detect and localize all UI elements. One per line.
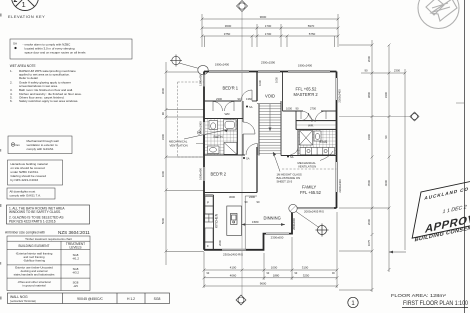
svg-text:2300: 2300 [394,69,401,73]
wall ens bottom / family top [281,155,337,157]
svg-text:VENTILATION: VENTILATION [298,165,316,169]
svg-text:2700: 2700 [310,106,316,110]
wall bed2 bottom [204,192,257,194]
svg-text:ENS: ENS [320,140,328,144]
leader to corner tag [179,63,199,69]
svg-text:Safety restriction apply to we: Safety restriction apply to wet area win… [19,99,78,103]
svg-text:1000x1000: 1000x1000 [199,121,203,135]
svg-text:BED'R 2: BED'R 2 [211,172,227,177]
window: bed1 top 1900x2400 [209,70,249,72]
note box: fan ventilation [8,136,72,154]
dashed void-over line [282,168,337,170]
wall bed1 bottom [204,100,241,102]
bath tiles hatch [205,119,237,155]
svg-text:2400: 2400 [249,195,255,199]
svg-text:5970: 5970 [308,24,315,28]
wall nog strip [8,293,170,304]
right arrow line [389,251,406,253]
svg-text:4060: 4060 [230,273,237,277]
svg-text:2000x600: 2000x600 [292,218,296,230]
svg-text:2300: 2300 [216,97,222,101]
window: dining step slider [266,233,289,235]
svg-text:H 1.2: H 1.2 [127,297,135,301]
grid bubble bottom (diamond) [236,295,246,305]
window: right wall master [336,78,338,100]
window: family bottom slider [296,207,334,209]
grid line horizontal C [339,116,411,118]
door arcs: master wr bifold [301,113,316,121]
svg-text:2300x600: 2300x600 [271,235,284,239]
svg-text:90: 90 [384,135,388,139]
svg-text:1030: 1030 [275,77,279,83]
svg-text:WR.: WR. [225,112,231,116]
svg-text:KITCHEN: KITCHEN [215,213,219,228]
exterior walls [204,72,337,250]
window: right wall family [336,162,338,192]
svg-text:1075: 1075 [367,239,371,246]
corner window tag [198,65,208,74]
wall ens left [297,130,299,156]
wall bed1/void [256,72,258,102]
svg-text:WR.: WR. [308,123,314,127]
window: master top 1900x2400 [288,70,330,72]
svg-text:FIRST FLOOR PLAN 1:100: FIRST FLOOR PLAN 1:100 [403,300,468,307]
svg-text:comply with G/AS1 7.A.: comply with G/AS1 7.A. [10,194,42,198]
scan specks left edge [0,14,2,300]
grid bubble A left [170,55,182,67]
fan symbol bath [197,131,200,134]
wall void/master [282,72,284,112]
svg-text:in ground material: in ground material [22,284,45,288]
wall wr strip bottom [204,118,243,120]
svg-text:2.: 2. [10,81,13,85]
drawing number bubble [348,297,358,307]
elevation key symbol [12,0,39,11]
svg-text:2000: 2000 [367,218,371,225]
svg-text:90: 90 [245,200,248,204]
ens tiles hatch [299,130,337,155]
svg-text:5750: 5750 [309,32,316,36]
window: left wall bath [203,122,205,135]
svg-text:WALL NOG: WALL NOG [10,295,28,299]
door arcs: bed1 wardrobe bifold [213,102,234,112]
note box: smoke alarm SA [10,39,132,59]
wall kitchen strip [213,195,215,250]
svg-text:1880: 1880 [273,273,280,277]
svg-text:NZS 3604:2011: NZS 3604:2011 [58,230,90,235]
svg-text:FFL +65.52: FFL +65.52 [300,190,322,195]
leader to target symbol [296,212,319,228]
svg-text:stairs,handrails and balustrad: stairs,handrails and balustrades [14,273,55,277]
svg-text:2000: 2000 [367,55,371,62]
svg-text:WET AREA NOTE: WET AREA NOTE [10,64,36,68]
svg-text:DINNING: DINNING [264,216,281,221]
door arc: bed1 door [241,90,252,101]
kitchen island [227,206,242,235]
svg-text:-Subfloor framing: -Subfloor framing [23,259,46,263]
svg-text:-H3.2: -H3.2 [72,271,79,275]
svg-text:1300x400: 1300x400 [199,74,203,86]
svg-text:SG8: SG8 [154,297,161,301]
door arcs: master double door [301,111,326,122]
left dimension line [165,62,205,265]
svg-text:FFL +65.52: FFL +65.52 [296,87,318,92]
svg-text:1900x2400: 1900x2400 [298,64,313,68]
svg-text:VENTILATION: VENTILATION [170,143,188,147]
north symbol [418,0,459,29]
bottom dimension total 9600 [203,285,339,288]
wall master wr top [296,120,337,122]
smoke alarm symbols [243,105,294,161]
kitchen dining divider line [244,196,246,250]
right dimension lines [339,40,407,292]
svg-text:90: 90 [296,106,299,110]
svg-text:3800: 3800 [367,91,371,98]
sheet right border [464,0,466,313]
window: left wall bed2 [203,167,205,181]
top dimension line 2 [201,24,340,47]
svg-text:2300x2400: 2300x2400 [338,179,342,193]
svg-text:1000: 1000 [271,266,278,270]
svg-text:space door and on escape route: space door and on escape routes on all l… [25,51,87,55]
bottom dimension line 2 [203,276,339,279]
svg-text:1030: 1030 [258,80,262,86]
svg-text:1000x400: 1000x400 [199,168,203,180]
svg-text:90X45 @450C/C: 90X45 @450C/C [77,297,103,301]
svg-text:1: 1 [22,0,26,9]
grid line vertical B [241,12,243,298]
grid bubble right (diamond) [410,112,419,121]
svg-text:3250: 3250 [303,273,310,277]
wall hall/bath [236,119,238,156]
wall hall vertical [242,101,244,122]
door tag circle on family wall [289,204,297,212]
timber treatment table [7,236,90,291]
svg-text:BED'R 1: BED'R 1 [223,86,239,91]
svg-text:1700: 1700 [265,32,272,36]
svg-text:3300: 3300 [384,91,388,98]
svg-text:-H1.2: -H1.2 [72,257,79,261]
wall void bottom [257,103,281,105]
bath fixtures [208,120,237,155]
wall wr/ens [296,129,337,131]
svg-text:P: P [207,201,209,205]
svg-text:3100: 3100 [302,266,309,270]
grid bubble top (diamond) [237,1,248,12]
wall stairwell left [258,104,260,156]
svg-text:90: 90 [161,112,165,116]
door arc: hall to bed2 [243,122,255,134]
interior walls [204,72,337,250]
master wr hatch [297,121,337,129]
dashed roofline left of plan [178,82,204,157]
svg-text:SA: SA [246,156,250,160]
svg-text:2: 2 [14,0,18,4]
svg-text:3300: 3300 [367,133,371,140]
window: left wall bed1 [203,75,205,87]
svg-text:3600: 3600 [225,24,232,28]
wall master bottom [283,110,304,112]
svg-text:FAMILY: FAMILY [302,185,317,190]
svg-text:-H5: -H5 [73,284,78,288]
svg-text:6.: 6. [10,99,13,103]
leader mech vent to bath [184,130,228,140]
table text [14,237,86,288]
svg-text:SA: SA [249,105,253,109]
svg-text:4100: 4100 [230,266,237,270]
svg-text:90: 90 [238,97,241,101]
svg-text:4000: 4000 [384,179,388,186]
svg-text:90: 90 [257,200,260,204]
wet area note list [10,64,82,103]
svg-text:1000: 1000 [286,106,292,110]
svg-text:2000x2405 R/S: 2000x2405 R/S [304,210,324,214]
svg-text:1700: 1700 [265,24,272,28]
dining arrow 1580 [242,224,286,226]
ens fixtures [300,131,335,155]
svg-text:2000: 2000 [218,240,222,246]
svg-text:VOID: VOID [265,94,275,99]
door arc: bed2 [246,144,258,156]
svg-text:3750: 3750 [224,32,231,36]
svg-text:2300x1590: 2300x1590 [261,61,276,65]
top dimension line 3 [201,35,340,48]
door arc: ens [291,147,299,155]
wall bath bottom / bed2 top [204,154,245,156]
approval stamp [411,172,470,244]
note box: downlights [7,188,55,199]
svg-text:2300x2400 R/S: 2300x2400 R/S [223,252,243,256]
svg-text:90: 90 [364,69,368,73]
svg-text:PER NZS 4223 PARTS 1-3:2016: PER NZS 4223 PARTS 1-3:2016 [9,219,56,223]
target symbol [316,224,329,237]
svg-text:All timber size complied with: All timber size complied with [5,231,45,235]
svg-text:2300x2400: 2300x2400 [338,89,342,103]
svg-text:WINDOWS TO BE SAFETY GLASS.: WINDOWS TO BE SAFETY GLASS. [9,210,61,214]
wall stairwell right [280,101,282,156]
svg-text:F: F [207,244,209,248]
note box: hazardous material [8,160,63,185]
note box: safety glass [7,205,90,224]
svg-text:fan: fan [16,143,21,147]
svg-text:FLOOR AREA: 128m²: FLOOR AREA: 128m² [391,293,447,298]
window: void top 2300x1590 [258,70,280,72]
bottom dimension line 1 [203,212,339,288]
kitchen strip fixtures [205,197,213,250]
svg-text:MASTER'R 2: MASTER'R 2 [294,92,319,97]
svg-text:1000: 1000 [161,170,165,177]
top dimension line total 9600 [201,14,340,47]
svg-text:SA: SA [13,42,17,46]
svg-text:ELEVATION KEY: ELEVATION KEY [8,14,45,19]
svg-text:3000: 3000 [229,195,235,199]
svg-text:1900x2400: 1900x2400 [215,63,230,67]
svg-text:3300: 3300 [161,133,165,140]
svg-text:9600: 9600 [260,15,267,19]
svg-text:1360: 1360 [246,97,252,101]
svg-text:Timber treatment requirements: Timber treatment requirements chart [25,237,72,241]
svg-text:BUILDING ELEMENT: BUILDING ELEMENT [19,244,50,248]
svg-text:by NZS 4223-3:2016: by NZS 4223-3:2016 [11,178,39,182]
svg-text:BATH: BATH [214,135,224,139]
svg-text:9600: 9600 [260,282,267,286]
svg-text:(vertical &/or Horizontal): (vertical &/or Horizontal) [10,300,36,303]
svg-text:comply with G4/AS1: comply with G4/AS1 [27,147,54,151]
svg-text:SHEET 15-5: SHEET 15-5 [277,180,293,184]
svg-text:3000: 3000 [161,87,165,94]
svg-text:5000: 5000 [161,217,165,224]
svg-text:LEVELS: LEVELS [69,245,81,249]
svg-text:1.: 1. [10,69,13,73]
border tick [456,102,465,104]
stairs treads [259,104,281,154]
window: kitchen bottom slider [222,249,246,251]
svg-text:4500: 4500 [367,179,371,186]
svg-text:SA: SA [290,155,294,159]
svg-text:1580: 1580 [252,220,259,224]
